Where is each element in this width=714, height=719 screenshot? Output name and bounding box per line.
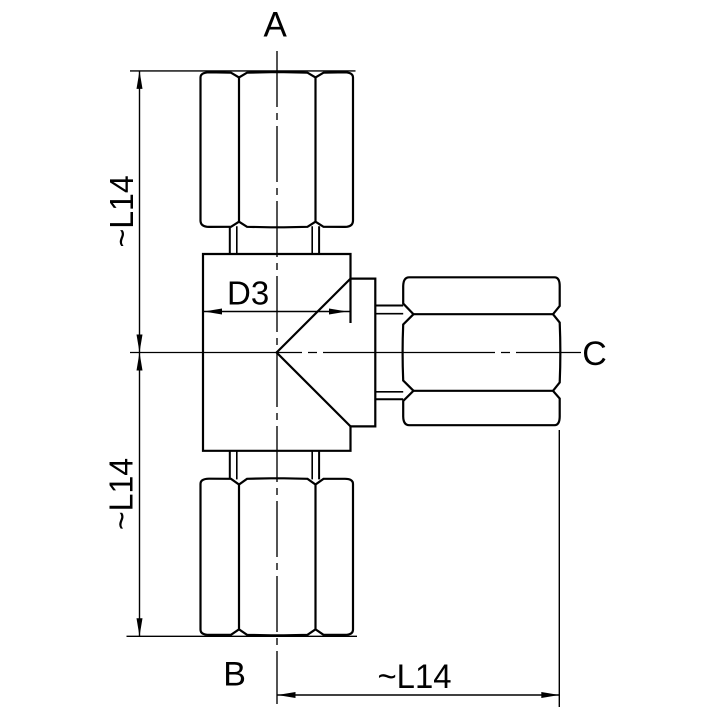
- upper neck (port A tube/thread): [230, 226, 319, 254]
- dimension ~L14 bottom: [277, 430, 559, 707]
- D3 extension line on body right edge: [349, 279, 351, 323]
- dimension ~L14 lower left: [127, 353, 358, 637]
- centerline axis C (horizontal dash-dot): [130, 352, 581, 354]
- branch neck (port C tube/thread): [375, 306, 403, 400]
- internal cone chamfer (45 deg V): [277, 279, 351, 427]
- centerline axis A-B (vertical dash-dot): [276, 51, 278, 704]
- lower neck (port B tube/thread): [230, 451, 319, 480]
- svg-text:A: A: [264, 6, 288, 45]
- svg-text:~L14: ~L14: [103, 458, 140, 530]
- port C hex nut: [403, 277, 561, 425]
- svg-text:~L14: ~L14: [378, 658, 452, 696]
- port A hex nut: [201, 72, 354, 227]
- svg-text:B: B: [223, 655, 246, 693]
- tee body: [203, 254, 351, 451]
- svg-text:D3: D3: [227, 274, 269, 311]
- dimension D3: [204, 311, 351, 313]
- svg-text:~L14: ~L14: [103, 175, 140, 247]
- svg-text:C: C: [582, 335, 607, 373]
- dimension ~L14 upper left: [130, 71, 356, 353]
- port B hex nut: [201, 478, 354, 635]
- branch flange: [351, 279, 376, 427]
